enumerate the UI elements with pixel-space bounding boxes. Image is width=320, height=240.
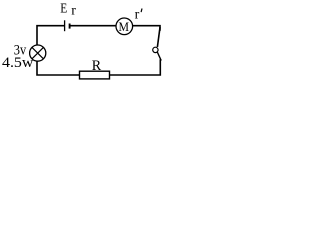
svg-text:E: E <box>60 1 67 16</box>
battery short plate <box>69 24 71 29</box>
wire top-left (lamp to battery) <box>37 26 64 46</box>
motor M <box>116 18 133 35</box>
svg-text:4.5w: 4.5w <box>2 55 34 71</box>
svg-text:R: R <box>92 58 102 74</box>
wire top-right (motor to switch) <box>133 26 160 30</box>
label r prime tick <box>140 9 143 13</box>
lamp (3v 4.5w bulb) <box>30 45 46 61</box>
wire right upper (corner to switch) <box>158 28 160 46</box>
wire top-middle (battery to motor) <box>70 25 116 27</box>
svg-text:M: M <box>118 19 129 34</box>
resistor R <box>80 71 110 79</box>
switch S <box>153 47 162 60</box>
svg-text:r: r <box>135 7 140 22</box>
battery E with internal resistance r <box>65 20 70 31</box>
wire bottom-left (resistor to lamp) <box>37 61 79 75</box>
battery long plate <box>64 20 66 31</box>
svg-text:r: r <box>71 4 76 19</box>
wire right lower (switch to bottom corner) <box>110 60 161 75</box>
